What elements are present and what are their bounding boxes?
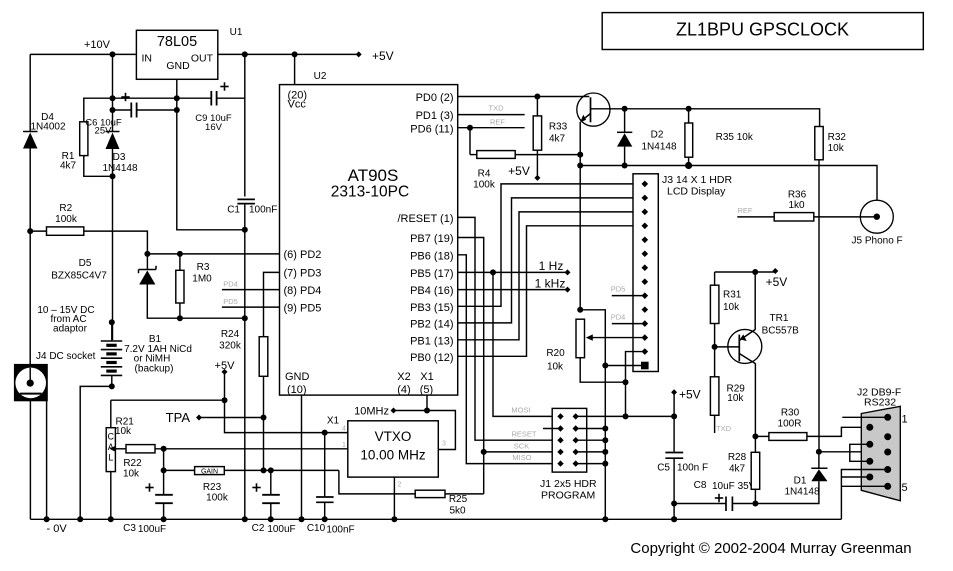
svg-text:(8) PD4: (8) PD4 <box>284 285 322 297</box>
resistor R24 320k <box>264 272 280 336</box>
transistor TR1 BC557B PNP <box>728 329 762 363</box>
svg-text:320k: 320k <box>219 341 242 352</box>
svg-text:D5: D5 <box>79 258 92 269</box>
wire U1 GND lead <box>177 79 245 230</box>
svg-text:1 Hz: 1 Hz <box>539 259 564 273</box>
svg-text:R36: R36 <box>788 190 807 201</box>
svg-text:(6) PD2: (6) PD2 <box>284 249 322 261</box>
svg-text:10uF 35V: 10uF 35V <box>712 481 756 492</box>
svg-text:16V: 16V <box>205 122 223 133</box>
wire emitter net vertical <box>579 155 581 310</box>
svg-text:R22: R22 <box>123 458 142 469</box>
svg-text:10k: 10k <box>723 302 740 313</box>
svg-text:1 kHz: 1 kHz <box>535 277 566 291</box>
svg-text:1N4002: 1N4002 <box>30 122 65 133</box>
resistor R25 5k0 <box>415 490 445 497</box>
wire Vcc drop to U2 <box>294 54 296 84</box>
svg-text:4k7: 4k7 <box>549 134 566 145</box>
resistor R33 4k7 <box>533 116 541 150</box>
wire PD4 stub <box>222 289 280 291</box>
svg-text:GND: GND <box>166 60 190 72</box>
svg-text:C5: C5 <box>657 463 670 474</box>
diode D3 1N4148 <box>106 131 120 133</box>
wire C8 to D1 anode <box>755 481 819 503</box>
svg-text:(7) PD3: (7) PD3 <box>284 268 322 280</box>
wire +5V row TR1 <box>715 271 776 273</box>
svg-text:C1: C1 <box>227 205 240 216</box>
svg-text:PB6 (18): PB6 (18) <box>410 251 453 263</box>
wire +5V to VTXO pin4 <box>225 372 325 433</box>
svg-text:TXD: TXD <box>489 104 505 113</box>
wire J2 ground pins <box>841 470 887 520</box>
svg-text:(backup): (backup) <box>135 364 174 375</box>
svg-text:LCD Display: LCD Display <box>667 186 726 198</box>
svg-text:PD1 (3): PD1 (3) <box>416 110 454 122</box>
wire J3 pin14 ground link <box>605 365 645 367</box>
battery B1 7.2V NiCd <box>101 340 122 342</box>
svg-text:100nF: 100nF <box>249 205 277 216</box>
wire J1 pin2 +5V row <box>576 415 674 417</box>
svg-text:(4): (4) <box>397 384 410 396</box>
svg-text:D1: D1 <box>794 476 807 487</box>
svg-text:4k7: 4k7 <box>60 161 77 172</box>
capacitor C2 100uF <box>270 470 272 494</box>
svg-text:1: 1 <box>342 442 346 449</box>
svg-text:PB1 (13): PB1 (13) <box>410 336 453 348</box>
wire /RESET to J1 <box>458 217 561 440</box>
wire B1 minus to 0V rail <box>80 386 112 519</box>
wire J2 jumper pins 4-6 <box>850 444 870 461</box>
svg-text:R32: R32 <box>828 132 847 143</box>
svg-text:OUT: OUT <box>191 53 214 65</box>
wire J3 PD4 stub <box>612 323 645 325</box>
wire PD2 net <box>147 253 279 255</box>
svg-text:3: 3 <box>442 441 446 448</box>
svg-text:PD0 (2): PD0 (2) <box>416 92 454 104</box>
connector J1 2x5 HDR PROGRAM <box>552 408 587 472</box>
svg-text:PD4: PD4 <box>611 313 626 322</box>
wire VTXO pin4 <box>325 432 348 434</box>
resistor R29 10k <box>714 347 716 377</box>
potentiometer R23 GAIN 100k <box>161 467 167 473</box>
wire D1 cathode row to J2 pin3 <box>819 451 888 453</box>
wire J3 PD5 stub <box>612 295 645 297</box>
capacitor C5 100nF <box>673 416 675 451</box>
svg-text:2313-10PC: 2313-10PC <box>331 184 409 201</box>
capacitor C10 100nF <box>324 433 326 497</box>
wire PD5 stub <box>222 306 280 308</box>
wire PD6 REF stub <box>458 127 525 129</box>
wire VTXO pin2 to rail <box>393 477 395 519</box>
wire PB2 to J3 pin2 <box>458 198 645 323</box>
wire GAIN net to R25 <box>339 470 415 494</box>
wire J1 row2 stub <box>543 428 561 430</box>
svg-text:U1: U1 <box>230 27 243 38</box>
svg-text:R31: R31 <box>723 290 742 301</box>
svg-text:100uF: 100uF <box>138 524 166 535</box>
wire R1 top <box>84 98 177 122</box>
svg-text:C10: C10 <box>307 523 326 534</box>
regulator U1 78L05 <box>136 30 217 79</box>
svg-text:2: 2 <box>398 482 402 489</box>
wire PB3 to J3 pin1 <box>458 184 645 306</box>
svg-text:PD6 (11): PD6 (11) <box>410 124 453 136</box>
resistor R32 10k <box>815 127 823 160</box>
diode D2 1N4148 <box>624 109 626 133</box>
svg-text:100k: 100k <box>473 180 496 191</box>
wire U2 GND lead <box>301 395 303 519</box>
svg-text:IN: IN <box>142 53 153 65</box>
svg-text:adaptor: adaptor <box>53 324 88 335</box>
diode D4 1N4002 <box>23 131 38 133</box>
svg-text:U2: U2 <box>314 71 327 82</box>
svg-text:C: C <box>108 432 115 442</box>
svg-text:PD5: PD5 <box>611 285 626 294</box>
svg-text:100R: 100R <box>778 418 802 429</box>
svg-text:4k7: 4k7 <box>729 464 746 475</box>
svg-text:R24: R24 <box>221 329 240 340</box>
svg-text:10k: 10k <box>123 469 140 480</box>
svg-text:J4 DC socket: J4 DC socket <box>36 351 96 362</box>
capacitor C9 10uF 16V <box>177 97 212 99</box>
svg-text:REF: REF <box>490 118 505 127</box>
wire PD0 to transistor base <box>458 96 590 98</box>
svg-text:+5V: +5V <box>766 275 788 289</box>
svg-text:SCK: SCK <box>514 442 529 451</box>
svg-text:PD5: PD5 <box>223 297 238 306</box>
wire J2 pin1 stub <box>842 416 887 418</box>
wire J3 pin13 to +5V <box>626 352 645 417</box>
svg-text:R30: R30 <box>781 408 800 419</box>
svg-text:TPA: TPA <box>166 410 191 425</box>
svg-text:/RESET (1): /RESET (1) <box>397 213 453 225</box>
resistor R22 10k with wiper arrow <box>109 446 115 452</box>
resistor R30 100R <box>755 435 769 437</box>
resistor R35 10k <box>685 123 693 157</box>
svg-text:Copyright © 2002-2004 Murray G: Copyright © 2002-2004 Murray Greenman <box>630 540 911 557</box>
svg-text:Vcc: Vcc <box>288 99 307 111</box>
node +5V at U1 OUT <box>218 53 359 55</box>
zener D5 BZX85C4V7 <box>144 251 150 257</box>
wire PD1 TXD stub <box>458 114 525 116</box>
connector J4 DC socket <box>14 364 48 401</box>
svg-text:10k: 10k <box>547 362 564 373</box>
svg-text:+5V: +5V <box>372 49 394 63</box>
svg-text:D3: D3 <box>113 152 126 163</box>
svg-text:RS232: RS232 <box>864 397 896 409</box>
svg-text:(9) PD5: (9) PD5 <box>284 303 322 315</box>
svg-text:TR1: TR1 <box>770 313 789 324</box>
svg-text:(5): (5) <box>420 384 433 396</box>
oscillator X1 VTXO 10.00 MHz <box>348 421 439 477</box>
wire +5V vertical to C9/C1 <box>244 54 246 196</box>
svg-text:C3: C3 <box>123 523 136 534</box>
wire +5V backup rail <box>111 399 225 401</box>
potentiometer R20 10k <box>577 307 583 313</box>
svg-text:(10): (10) <box>287 384 307 396</box>
svg-text:L: L <box>108 453 113 463</box>
transistor Q1 NPN <box>577 93 610 126</box>
svg-text:R2: R2 <box>59 203 72 214</box>
wire MOSI riser to J1 <box>493 272 561 416</box>
svg-text:BZX85C4V7: BZX85C4V7 <box>51 271 107 282</box>
wire battery plus line <box>112 176 114 340</box>
wire PB1 to J3 pin3 <box>458 212 645 340</box>
svg-text:PB4 (16): PB4 (16) <box>410 285 453 297</box>
svg-text:J3 14 X 1 HDR: J3 14 X 1 HDR <box>662 174 732 186</box>
IC U2 AT90S 2313-10PC <box>280 85 458 396</box>
svg-text:X1: X1 <box>420 371 433 383</box>
svg-text:+5V: +5V <box>679 388 701 402</box>
svg-text:R25: R25 <box>449 494 468 505</box>
svg-text:PB3 (15): PB3 (15) <box>410 302 453 314</box>
wire ground chain dots J1 <box>602 426 608 432</box>
wire R1 bottom to D3 anode <box>84 156 113 177</box>
svg-text:1: 1 <box>902 414 908 426</box>
wire D4 cathode riser <box>29 54 31 131</box>
wire PB4 1 kHz stub <box>458 289 568 291</box>
resistor R28 4k7 <box>754 436 756 452</box>
svg-text:ZL1BPU GPSCLOCK: ZL1BPU GPSCLOCK <box>676 20 849 40</box>
wire VTXO pin3 to X1 pin5 10MHz net <box>394 411 456 450</box>
svg-text:MOSI: MOSI <box>511 406 530 415</box>
svg-text:BC557B: BC557B <box>762 326 800 337</box>
svg-text:PB5 (17): PB5 (17) <box>410 268 453 280</box>
potentiometer R21 CAL 10k <box>106 428 115 472</box>
svg-text:1M0: 1M0 <box>192 274 212 285</box>
wire J4 sleeve to rail <box>29 401 31 519</box>
svg-text:+10V: +10V <box>84 39 111 51</box>
svg-text:R4: R4 <box>478 169 491 180</box>
svg-text:R33: R33 <box>549 122 568 133</box>
svg-text:R28: R28 <box>728 452 747 463</box>
svg-text:4: 4 <box>342 426 346 433</box>
svg-text:R3: R3 <box>197 262 210 273</box>
svg-text:R20: R20 <box>546 348 565 359</box>
node +5V near C5 <box>671 389 677 395</box>
connector J3 14x1 HDR LCD Display <box>633 174 658 372</box>
wire +10V rail to U1 IN <box>30 53 136 55</box>
connector J2 DB9-F RS232 <box>861 406 900 501</box>
resistor R2 100k <box>27 228 33 234</box>
svg-text:+5V: +5V <box>508 164 530 178</box>
connector J5 Phono F <box>860 200 893 233</box>
svg-text:100k: 100k <box>206 493 229 504</box>
wire PB6 MISO to J1 <box>458 255 561 464</box>
svg-text:R35 10k: R35 10k <box>716 132 754 143</box>
svg-text:PB0 (12): PB0 (12) <box>410 352 453 364</box>
svg-text:R23: R23 <box>203 482 222 493</box>
svg-text:AT90S: AT90S <box>348 166 399 185</box>
svg-text:X2: X2 <box>397 371 410 383</box>
svg-text:MISO: MISO <box>512 453 531 462</box>
wire collector rail <box>625 109 820 127</box>
svg-text:10k: 10k <box>115 426 132 437</box>
wire PB7 SCK riser <box>458 238 484 494</box>
svg-text:100nF: 100nF <box>326 525 354 536</box>
svg-text:- 0V: - 0V <box>47 523 68 535</box>
svg-text:1N4148: 1N4148 <box>102 163 137 174</box>
wire R20 wiper arrow from J3 pin12 <box>592 337 645 339</box>
svg-text:10MHz: 10MHz <box>354 406 389 418</box>
svg-text:100n F: 100n F <box>677 463 708 474</box>
svg-text:X1: X1 <box>327 416 340 427</box>
svg-text:GAIN: GAIN <box>201 468 218 475</box>
diode D1 1N4148 <box>816 449 822 455</box>
svg-text:TXD: TXD <box>716 424 732 433</box>
svg-text:VTXO: VTXO <box>375 429 412 444</box>
svg-text:PB2 (14): PB2 (14) <box>410 319 453 331</box>
resistor R36 1k0 <box>737 216 774 218</box>
svg-text:1k0: 1k0 <box>788 200 805 211</box>
svg-text:PROGRAM: PROGRAM <box>541 490 595 502</box>
svg-text:D2: D2 <box>651 130 664 141</box>
svg-text:GND: GND <box>285 371 310 383</box>
capacitor C1 100nF <box>237 198 255 200</box>
node TPA test point <box>196 415 202 421</box>
wire PB0 to J3 pin4 <box>458 226 645 356</box>
resistor R31 10k <box>714 272 716 285</box>
resistor R1 4k7 <box>80 122 88 156</box>
svg-text:78L05: 78L05 <box>157 34 197 50</box>
svg-text:PD4: PD4 <box>223 280 238 289</box>
wire PB5 1 Hz stub <box>458 271 568 273</box>
wire ground rail 0V <box>30 518 841 520</box>
wire output lower rail to J5 <box>580 166 877 201</box>
svg-text:5: 5 <box>902 482 908 494</box>
svg-text:100uF: 100uF <box>267 524 295 535</box>
svg-text:C2: C2 <box>252 523 265 534</box>
svg-text:REF: REF <box>738 206 753 215</box>
resistor R3 1M0 <box>177 251 183 257</box>
svg-text:PB7 (19): PB7 (19) <box>410 233 453 245</box>
svg-text:1N4148: 1N4148 <box>784 487 819 498</box>
svg-text:10k: 10k <box>727 393 744 404</box>
wire CAL pot top feed <box>110 400 112 428</box>
title box <box>602 13 923 50</box>
svg-text:RESET: RESET <box>511 430 536 439</box>
capacitor C8 10uF 35V <box>674 503 726 505</box>
svg-text:+5V: +5V <box>215 360 236 372</box>
resistor R4 100k <box>469 128 471 155</box>
svg-text:10k: 10k <box>828 143 845 154</box>
svg-text:5k0: 5k0 <box>449 506 466 517</box>
wire J1 right rows to ground chain <box>576 428 606 430</box>
svg-text:10.00 MHz: 10.00 MHz <box>360 448 426 463</box>
svg-text:C8: C8 <box>694 480 707 491</box>
node +5V arrow <box>222 369 228 375</box>
capacitor C6 10uF 25V <box>113 109 132 111</box>
svg-text:100k: 100k <box>55 214 78 225</box>
svg-text:J1 2x5 HDR: J1 2x5 HDR <box>540 478 597 490</box>
svg-text:J5 Phono F: J5 Phono F <box>852 236 903 247</box>
capacitor C3 100uF <box>161 446 167 452</box>
wire SCK row to J1 <box>484 451 561 453</box>
svg-text:1N4148: 1N4148 <box>641 142 676 153</box>
